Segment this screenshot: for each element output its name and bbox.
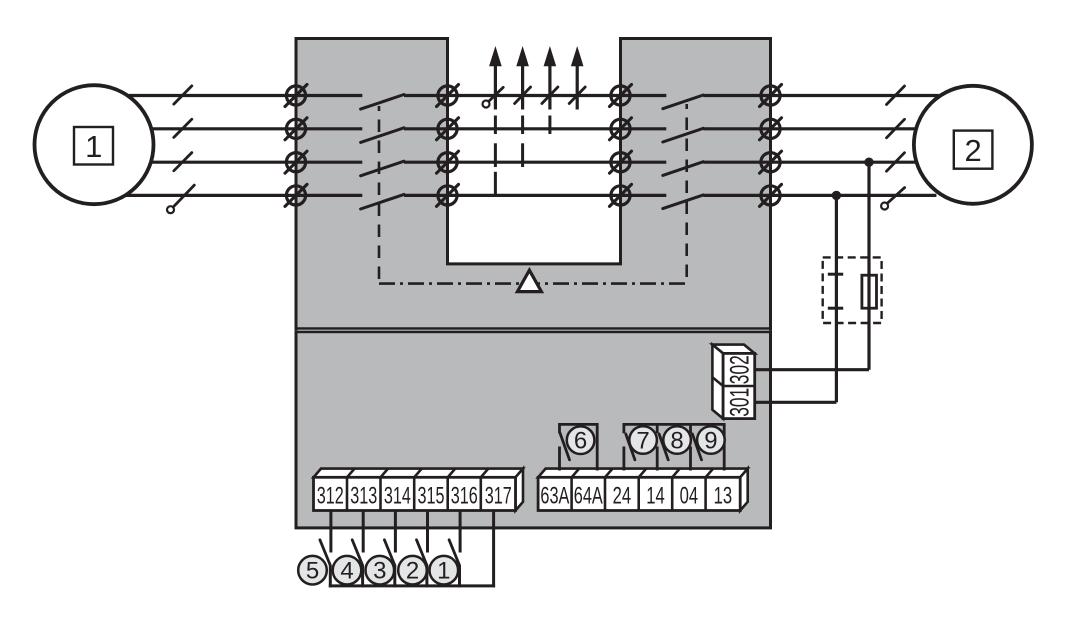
terminal divider 301/302 xyxy=(723,385,755,388)
terminal divider B tick 3d xyxy=(572,469,580,478)
svg-text:8: 8 xyxy=(670,427,683,454)
wire phase 1: switch 2 to source 2 xyxy=(703,94,938,97)
svg-text:24: 24 xyxy=(613,482,632,509)
svg-text:313: 313 xyxy=(350,482,377,509)
contact 8 pivot stub xyxy=(656,423,659,433)
svg-text:9: 9 xyxy=(704,427,717,454)
terminal divider A tick 3d xyxy=(414,469,422,478)
terminal block A top face xyxy=(314,469,524,478)
callout circle 2 xyxy=(398,556,427,585)
wire phase 3: source 1 to switch 1 contact xyxy=(151,161,363,164)
svg-text:314: 314 xyxy=(384,482,411,509)
feeder arrow 2 head xyxy=(516,46,529,66)
terminal block 301/302 front face xyxy=(723,353,755,418)
line break slash, right phase 1 xyxy=(887,86,905,105)
svg-text:317: 317 xyxy=(485,482,512,509)
bushing terminal phase 4 at x=296 xyxy=(285,184,307,206)
contacts 7-9 right leg (terminal 13) xyxy=(723,423,726,471)
bushing terminal phase 1 at x=770 xyxy=(760,85,782,107)
terminal divider A x=447.7 xyxy=(446,477,449,510)
feeder 1 tap dash 1 xyxy=(494,116,497,135)
terminal divider A x=480.8 xyxy=(479,477,482,510)
neutral isolator left: contact circle xyxy=(167,206,174,213)
contact 1 switch arm xyxy=(449,540,459,566)
contact 5 switch arm xyxy=(320,540,330,566)
bushing terminal phase 2 at x=447 xyxy=(437,118,459,140)
wire phase 1: source 1 to switch 1 contact xyxy=(128,94,362,97)
terminal divider B x=638.7 xyxy=(637,477,640,510)
callout circle 9 xyxy=(697,426,725,454)
arrester electrode tick top xyxy=(828,273,843,276)
terminal block B top face xyxy=(538,469,748,478)
svg-text:302: 302 xyxy=(725,355,755,384)
feeder 2 tap dash 2 xyxy=(521,143,524,167)
svg-text:63A: 63A xyxy=(540,482,569,509)
switch 2 pole 1 moving arm xyxy=(663,95,704,109)
fuse F1 body xyxy=(862,275,877,308)
switch 1 pole 2 moving arm xyxy=(361,128,404,143)
svg-text:315: 315 xyxy=(418,482,445,509)
wire phase 2: switch 2 to source 2 xyxy=(703,127,915,130)
motor drive triangle symbol xyxy=(517,270,541,291)
contact 4 switch arm xyxy=(352,540,362,566)
wire phase 2: middle section through notch xyxy=(404,127,666,130)
svg-text:04: 04 xyxy=(680,482,699,509)
wire phase 4: switch 2 to source 2 xyxy=(703,194,936,197)
svg-text:316: 316 xyxy=(451,482,478,509)
contact 6 lower wire xyxy=(558,447,561,471)
contacts 7-9 bracket top xyxy=(624,423,724,426)
callout circle 3 xyxy=(366,556,395,585)
line break slash, left phase 2 xyxy=(174,119,192,137)
terminal divider B x=571.6 xyxy=(570,477,573,510)
feeder 1 tap dash 3 xyxy=(494,172,497,196)
svg-text:7: 7 xyxy=(636,427,649,454)
wire phase 4: source 1 to switch 1 contact xyxy=(125,194,362,197)
body split hairline xyxy=(298,329,770,331)
feeder 2 tap dash 1 xyxy=(521,116,524,135)
common bus under contacts xyxy=(329,584,495,587)
contact 8 switch arm xyxy=(659,434,668,460)
feeder arrow 1 shaft xyxy=(494,62,497,110)
callout circle 4 xyxy=(333,556,362,585)
bushing terminal phase 3 at x=620 xyxy=(610,151,632,173)
svg-text:301: 301 xyxy=(725,388,755,417)
contact 7 pivot stub xyxy=(623,423,626,433)
feeder 3 break slash xyxy=(542,87,558,104)
line break slash, right phase 2 xyxy=(887,119,905,138)
linkage dashed line right (switch 2 drive) xyxy=(685,104,688,284)
contact 6 bracket top xyxy=(560,423,598,426)
source 2 square xyxy=(954,131,993,169)
terminal block 301/302 left face xyxy=(712,345,723,419)
bushing terminal phase 3 at x=770 xyxy=(760,151,782,173)
wire phase 2: source 1 to switch 1 contact xyxy=(151,127,362,130)
neutral isolator right: blade xyxy=(888,188,905,203)
contact 3 switch arm xyxy=(384,540,394,566)
feeder arrow 2 shaft xyxy=(521,62,524,110)
contact 7 lower wire xyxy=(623,447,626,471)
svg-text:312: 312 xyxy=(317,482,344,509)
junction node phase 3 xyxy=(864,158,873,167)
terminal divider B x=605.0 xyxy=(604,477,607,510)
svg-text:6: 6 xyxy=(574,428,587,455)
feeder arrow 3 shaft xyxy=(548,62,551,110)
relay body lower (gray block) xyxy=(296,332,771,528)
terminal divider tick 3d xyxy=(712,377,723,386)
terminal divider A tick 3d xyxy=(381,469,389,478)
fuse F1 through-wire xyxy=(867,275,870,308)
terminal divider B tick 3d xyxy=(706,469,714,478)
line break slash, right phase 3 xyxy=(887,153,905,172)
junction node phase 4 xyxy=(832,191,841,200)
bushing terminal phase 2 at x=296 xyxy=(285,118,307,140)
source 1 circle xyxy=(35,85,154,204)
contact 6 switch arm xyxy=(560,433,570,460)
wire drop phase 3 to terminal 302 xyxy=(867,162,870,370)
switch 2 pole 4 moving arm xyxy=(663,195,704,209)
wire phase 1: middle section through notch xyxy=(404,94,666,97)
bushing terminal phase 2 at x=770 xyxy=(760,118,782,140)
terminal divider A tick 3d xyxy=(347,469,355,478)
svg-text:2: 2 xyxy=(964,133,981,168)
callout circle 5 xyxy=(298,556,327,585)
source 1 square xyxy=(74,127,113,165)
bushing terminal phase 1 at x=447 xyxy=(437,85,459,107)
switch 2 pole 3 moving arm xyxy=(663,162,704,176)
svg-text:5: 5 xyxy=(306,558,319,585)
terminal divider A x=347 xyxy=(346,477,349,510)
switch 2 pole 2 moving arm xyxy=(663,128,704,142)
feeder arrow 4 shaft xyxy=(576,62,579,110)
contact 3 lower stub xyxy=(393,565,396,587)
contact 4 lower stub xyxy=(361,565,364,587)
contact 6 pivot stub xyxy=(558,423,561,433)
wire phase 4: middle section through notch xyxy=(404,194,666,197)
feeder 1 isolator blade xyxy=(489,87,503,101)
terminal divider A tick 3d xyxy=(481,469,489,478)
contact 7 switch arm xyxy=(626,434,635,460)
contact 5 lower stub xyxy=(329,565,332,587)
terminal divider B tick 3d xyxy=(605,469,613,478)
bushing terminal phase 4 at x=620 xyxy=(610,184,632,206)
feeder arrow 4 head xyxy=(571,46,584,66)
contact 8 lower wire xyxy=(656,447,659,471)
contact 1 wire from terminal 316 xyxy=(459,511,462,553)
svg-text:13: 13 xyxy=(714,482,733,509)
svg-text:1: 1 xyxy=(85,129,102,164)
callout circle 7 xyxy=(629,426,657,454)
wire phase 3: middle section through notch xyxy=(404,161,666,164)
switch 1 pole 4 moving arm xyxy=(361,194,404,209)
bushing terminal phase 4 at x=770 xyxy=(760,184,782,206)
bushing terminal phase 3 at x=296 xyxy=(285,151,307,173)
contact 4 wire from terminal 313 xyxy=(362,511,365,553)
line break slash, left phase 3 xyxy=(174,153,192,171)
terminal block A front face xyxy=(314,477,516,510)
wire drop phase 4 to terminal 301 xyxy=(835,195,838,402)
contact 3 wire from terminal 314 xyxy=(394,511,397,553)
surge protection unit dashed outline xyxy=(823,257,882,323)
linkage dash-dot horizontal xyxy=(379,282,687,285)
feeder 1 isolator contact circle xyxy=(483,101,490,108)
callout circle 8 xyxy=(663,426,691,454)
contact 6 right leg xyxy=(596,423,599,471)
contact 9 pivot stub xyxy=(689,423,692,433)
svg-text:1: 1 xyxy=(437,558,450,585)
terminal divider B x=672.2 xyxy=(671,477,674,510)
svg-text:64A: 64A xyxy=(574,482,603,509)
line break slash, left phase 1 xyxy=(174,86,192,104)
feeder arrow 3 head xyxy=(544,46,557,66)
svg-text:3: 3 xyxy=(373,558,386,585)
bushing terminal phase 4 at x=447 xyxy=(437,184,459,206)
switch 1 pole 3 moving arm xyxy=(361,161,404,176)
svg-text:14: 14 xyxy=(646,482,665,509)
contact 9 lower wire xyxy=(689,447,692,471)
source 2 circle xyxy=(914,86,1032,204)
arrester electrode tick bottom xyxy=(828,307,843,310)
feeder 2 break slash xyxy=(515,87,531,104)
terminal block B right face xyxy=(740,469,748,511)
feeder 4 break slash xyxy=(569,87,585,104)
linkage dashed line left (switch 1 drive) xyxy=(378,106,381,284)
contact 2 lower stub xyxy=(425,565,428,587)
switchgear body upper (U-shaped gray block) xyxy=(296,39,771,329)
bushing terminal phase 1 at x=620 xyxy=(610,85,632,107)
wire terminal 301 horizontal xyxy=(755,401,837,404)
terminal divider B tick 3d xyxy=(672,469,680,478)
contact 2 wire from terminal 315 xyxy=(426,511,429,553)
svg-text:2: 2 xyxy=(406,558,419,585)
wire from terminal 317 (common) xyxy=(492,511,495,588)
wire phase 3: switch 2 to source 2 xyxy=(703,161,916,164)
bushing terminal phase 1 at x=296 xyxy=(285,85,307,107)
terminal divider A x=414.2 xyxy=(413,477,416,510)
contact 5 wire from terminal 312 xyxy=(329,511,332,553)
terminal block 301/302 top face xyxy=(712,345,754,354)
bushing terminal phase 3 at x=447 xyxy=(437,151,459,173)
svg-text:4: 4 xyxy=(340,558,353,585)
contact 2 switch arm xyxy=(417,540,427,566)
feeder 3 tap dash 1 xyxy=(548,116,551,135)
switch 1 pole 1 moving arm xyxy=(361,95,404,110)
callout circle 6 xyxy=(567,426,595,454)
terminal block B front face xyxy=(538,477,740,510)
neutral isolator right: contact circle xyxy=(881,203,888,210)
wire terminal 302 horizontal xyxy=(755,368,869,371)
terminal divider B tick 3d xyxy=(639,469,647,478)
terminal divider A tick 3d xyxy=(448,469,456,478)
contact 9 switch arm xyxy=(692,434,701,460)
terminal block A right face xyxy=(516,469,524,511)
callout circle 1 xyxy=(430,556,459,585)
bushing terminal phase 2 at x=620 xyxy=(610,118,632,140)
feeder arrow 1 head xyxy=(489,46,502,66)
contact 1 lower stub xyxy=(458,565,461,587)
terminal divider A x=380.5 xyxy=(379,477,382,510)
feeder 1 tap dash 2 xyxy=(494,143,497,167)
terminal divider B x=705.6 xyxy=(704,477,707,510)
neutral isolator left: blade xyxy=(173,185,194,207)
